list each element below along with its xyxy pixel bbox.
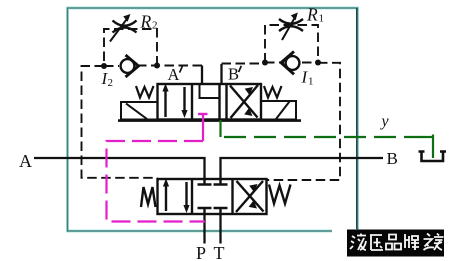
svg-text:A: A xyxy=(168,65,180,84)
svg-text:P: P xyxy=(196,243,206,261)
svg-text:A: A xyxy=(19,151,32,171)
svg-text:1: 1 xyxy=(319,13,325,25)
svg-text:B: B xyxy=(387,149,398,168)
svg-text:B: B xyxy=(228,65,239,84)
svg-text:R: R xyxy=(140,12,152,32)
svg-text:2: 2 xyxy=(108,77,114,89)
svg-text:R: R xyxy=(306,5,318,25)
svg-text:y: y xyxy=(380,113,390,130)
svg-text:1: 1 xyxy=(308,76,314,88)
svg-text:2: 2 xyxy=(152,20,158,32)
svg-text:T: T xyxy=(214,243,225,261)
